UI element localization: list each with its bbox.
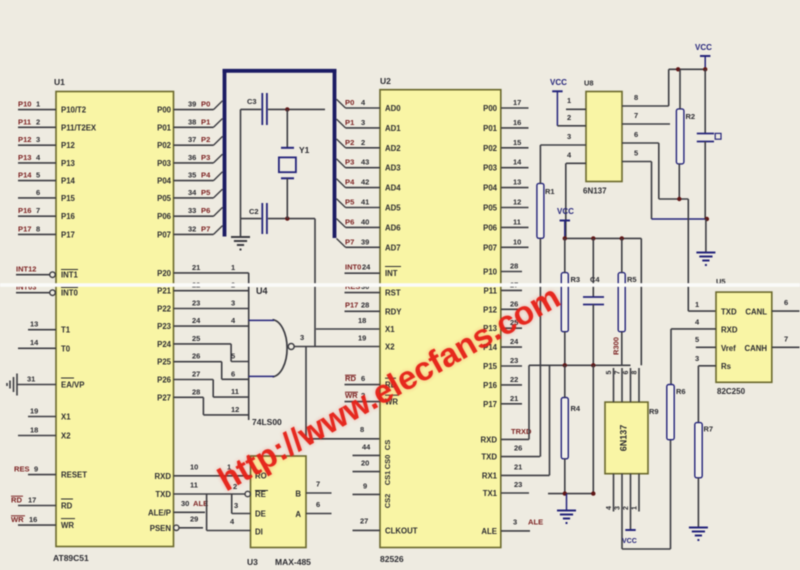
U2 RST pin wire net RES pin 30 — [345, 282, 381, 293]
svg-text:P06: P06 — [157, 212, 172, 221]
U1 T1 pin wire pin 13 — [28, 320, 56, 330]
svg-text:1: 1 — [231, 263, 235, 272]
wire: U3 A output pin 6 — [306, 500, 332, 513]
svg-text:2: 2 — [361, 138, 365, 147]
svg-text:10: 10 — [513, 237, 521, 246]
svg-text:WR: WR — [61, 521, 74, 530]
svg-text:Vref: Vref — [721, 344, 736, 353]
wire: U5 Rs to R7 pin 8 — [695, 354, 716, 423]
svg-text:6: 6 — [316, 500, 320, 509]
svg-text:26: 26 — [514, 444, 522, 453]
ground below rail (blue) — [557, 494, 576, 523]
svg-text:P15: P15 — [61, 194, 76, 203]
svg-text:P7: P7 — [201, 224, 210, 233]
svg-text:TXD: TXD — [481, 453, 497, 462]
svg-text:14: 14 — [513, 158, 522, 167]
bus: thick P0 bus — [223, 69, 337, 238]
svg-text:P12: P12 — [61, 141, 76, 150]
svg-text:7: 7 — [784, 335, 788, 344]
U2 TX1 pin wire pin 23 — [501, 480, 529, 493]
svg-text:13: 13 — [30, 320, 38, 329]
U1 X2 pin wire pin 18 — [18, 425, 56, 435]
svg-text:VCC: VCC — [695, 43, 712, 52]
U5 Vref stub pin 5 — [695, 335, 716, 347]
wire: node row down to ground rail — [592, 365, 594, 493]
IC U5 82C250 CAN transceiver — [716, 277, 772, 396]
svg-text:RESET: RESET — [61, 471, 87, 480]
U2 CS0 pin wire pin 44 — [353, 443, 381, 456]
svg-text:A: A — [295, 510, 301, 519]
svg-text:11: 11 — [190, 481, 198, 490]
svg-text:P00: P00 — [483, 104, 498, 113]
node: C1/Y1 junction — [285, 107, 289, 111]
wire: VCC rail down to opto2 pin8 — [640, 238, 642, 365]
U2 AD0-AD7 pin wires pins 4,3,2,43,42,41,40,39 nets P0-P7 with bus entries — [337, 98, 381, 247]
svg-text:28: 28 — [192, 387, 200, 396]
svg-text:8: 8 — [632, 370, 639, 374]
svg-text:P0: P0 — [345, 98, 354, 107]
svg-text:RE: RE — [255, 490, 266, 499]
svg-text:TXD: TXD — [721, 308, 737, 317]
U1 T0 pin wire pin 14 — [18, 338, 56, 348]
wire: U1 TXD to U3 RE pins 11,2 with bubble — [174, 481, 251, 497]
crystal Y1 — [279, 109, 310, 218]
svg-text:74LS00: 74LS00 — [252, 417, 282, 427]
U1 ALE/P stub pin 30 net ALE — [174, 499, 209, 512]
wire: U2 RX1 up to node row — [549, 365, 551, 475]
svg-text:28: 28 — [510, 262, 518, 271]
U2 RDY pin wire net P17 pin 28 — [345, 301, 381, 312]
svg-text:R4: R4 — [571, 404, 581, 413]
svg-text:AD4: AD4 — [385, 184, 401, 193]
svg-text:P1: P1 — [345, 118, 355, 127]
svg-text:29: 29 — [190, 515, 198, 524]
svg-text:P1: P1 — [201, 117, 211, 126]
svg-text:11: 11 — [513, 217, 521, 226]
wire: U4 output to U2 X2 — [294, 346, 380, 348]
svg-text:19: 19 — [30, 406, 38, 415]
svg-text:CS: CS — [383, 440, 392, 450]
IC U2 82526 CAN controller — [380, 76, 501, 564]
svg-text:P3: P3 — [201, 153, 210, 162]
svg-text:6N137: 6N137 — [583, 187, 607, 196]
svg-text:31: 31 — [27, 374, 35, 383]
svg-text:3: 3 — [36, 135, 40, 144]
svg-text:4: 4 — [606, 506, 613, 510]
IC U1 AT89C51 microcontroller — [53, 77, 174, 563]
svg-text:18: 18 — [358, 316, 366, 325]
svg-text:C3: C3 — [247, 97, 257, 106]
svg-text:P11: P11 — [18, 117, 32, 126]
svg-text:9: 9 — [363, 482, 367, 491]
svg-text:ALE/P: ALE/P — [148, 508, 171, 517]
U1 PSEN stub pin 29 with bubble — [174, 515, 203, 531]
svg-text:5: 5 — [606, 370, 613, 374]
svg-text:30: 30 — [181, 499, 189, 508]
svg-text:RES: RES — [14, 464, 30, 473]
svg-text:X1: X1 — [385, 325, 395, 334]
svg-text:25: 25 — [192, 334, 200, 343]
svg-text:P6: P6 — [345, 217, 354, 226]
IC U3 MAX-485 — [247, 456, 311, 567]
node: ground rail junctions — [563, 491, 596, 495]
svg-text:P07: P07 — [157, 230, 171, 239]
svg-text:38: 38 — [188, 117, 196, 126]
gate U4 74LS00 NAND — [252, 286, 304, 427]
svg-text:44: 44 — [362, 443, 371, 452]
svg-text:P6: P6 — [201, 206, 210, 215]
U8 pin 2 wire from VCC — [557, 113, 586, 126]
svg-text:AD6: AD6 — [385, 223, 401, 232]
node: C2/Y1 junction — [285, 216, 289, 220]
resistor R5 — [618, 238, 636, 365]
svg-text:CANH: CANH — [744, 344, 767, 353]
svg-text:R2: R2 — [686, 112, 696, 121]
svg-text:RST: RST — [385, 289, 401, 298]
svg-text:Rs: Rs — [721, 362, 732, 371]
svg-text:INT: INT — [385, 269, 398, 278]
white scan band — [0, 283, 800, 287]
watermark http://www.elecfans.com — [211, 278, 566, 498]
svg-text:AD5: AD5 — [385, 204, 401, 213]
wire: node row — [529, 364, 631, 366]
svg-text:32: 32 — [188, 224, 196, 233]
wire: VCC rail top right — [669, 68, 706, 70]
wire: U5 RXD to R6 pin 4 — [671, 318, 716, 385]
U2 CLKOUT pin wire pin 27 — [353, 517, 381, 531]
U8 pin 6 output wire — [622, 130, 688, 199]
svg-text:P01: P01 — [157, 123, 172, 132]
svg-text:X1: X1 — [61, 413, 71, 422]
node: rail junctions — [563, 236, 624, 240]
net label R300 (red, vertical) — [612, 337, 621, 355]
svg-text:P10: P10 — [18, 100, 32, 109]
U2 RXD pin wire net TRXD — [501, 427, 532, 439]
svg-text:T1: T1 — [61, 326, 71, 335]
svg-text:AD7: AD7 — [385, 243, 401, 252]
svg-text:P15: P15 — [483, 362, 498, 371]
U2 RX1 pin wire pin 21 — [501, 462, 550, 475]
svg-text:P23: P23 — [157, 322, 172, 331]
svg-text:RX1: RX1 — [482, 471, 498, 480]
svg-text:P26: P26 — [157, 376, 172, 385]
svg-text:P17: P17 — [483, 400, 497, 409]
svg-text:82526: 82526 — [380, 554, 404, 564]
svg-text:26: 26 — [192, 352, 200, 361]
U2 RD pin wire pin 6 net RD — [345, 374, 381, 385]
resistor R4 — [561, 365, 581, 493]
svg-text:13: 13 — [513, 178, 521, 187]
svg-text:P5: P5 — [345, 198, 355, 207]
wire: R1 bottom to U2 TXD — [539, 238, 541, 456]
svg-text:DI: DI — [255, 528, 263, 537]
svg-text:P4: P4 — [345, 178, 355, 187]
svg-text:CS0: CS0 — [383, 455, 392, 470]
U1 WR pin wire pin 16 — [11, 515, 56, 525]
svg-text:P07: P07 — [483, 243, 497, 252]
svg-text:22: 22 — [510, 375, 518, 384]
svg-text:DE: DE — [255, 510, 266, 519]
svg-text:37: 37 — [188, 135, 196, 144]
svg-text:P0: P0 — [201, 100, 210, 109]
svg-text:P2: P2 — [201, 135, 210, 144]
svg-text:P11: P11 — [484, 286, 498, 295]
svg-text:40: 40 — [361, 217, 369, 226]
ground below crystal caps — [231, 219, 250, 250]
svg-text:P13: P13 — [18, 153, 32, 162]
svg-text:23: 23 — [192, 299, 200, 308]
U1 P0 port pin wires pins 39-32, nets P0-P7, bus entries — [174, 100, 223, 235]
svg-text:P10/T2: P10/T2 — [61, 106, 87, 115]
svg-text:82C250: 82C250 — [717, 387, 746, 396]
svg-text:U2: U2 — [380, 76, 391, 86]
svg-text:RDY: RDY — [385, 307, 402, 316]
svg-text:33: 33 — [188, 206, 196, 215]
svg-text:R300: R300 — [612, 337, 621, 355]
svg-text:6: 6 — [784, 298, 788, 307]
svg-text:RXD: RXD — [481, 435, 498, 444]
wire: pin5 node to cap ground (blue) — [652, 218, 707, 220]
svg-text:20: 20 — [361, 459, 369, 468]
svg-text:R7: R7 — [704, 425, 714, 434]
capacitor C4 — [583, 238, 604, 365]
svg-text:R1: R1 — [545, 187, 555, 196]
svg-text:P05: P05 — [157, 194, 172, 203]
svg-text:INT1: INT1 — [61, 271, 79, 280]
svg-text:TXD: TXD — [155, 490, 171, 499]
svg-text:1: 1 — [36, 100, 40, 109]
svg-text:3: 3 — [567, 132, 571, 141]
svg-text:8: 8 — [36, 224, 40, 233]
U2 TXD pin wire pin 26 — [501, 444, 540, 457]
svg-text:X2: X2 — [385, 343, 395, 352]
wire: TXD branch down to U3 DI pin 4 — [207, 494, 251, 531]
wire: branch from X2 row down to U2 CS — [306, 347, 380, 439]
svg-text:VCC: VCC — [622, 538, 637, 545]
svg-text:1: 1 — [695, 300, 699, 309]
resistor R3 — [561, 238, 580, 365]
opto2 bottom pin stubs 4,3,2,1 — [606, 474, 639, 549]
svg-text:P20: P20 — [157, 269, 172, 278]
svg-text:21: 21 — [192, 263, 200, 272]
svg-text:TX1: TX1 — [483, 489, 498, 498]
svg-text:P11/T2EX: P11/T2EX — [61, 123, 97, 132]
svg-text:INT0: INT0 — [61, 289, 79, 298]
wire: U2 RXD up to node row — [528, 365, 530, 439]
U8 pin 8 wire up to VCC rail — [622, 69, 669, 106]
svg-text:39: 39 — [361, 237, 369, 246]
U5 TXD pin 1 label — [695, 300, 699, 309]
svg-text:P21: P21 — [157, 287, 172, 296]
wire: U2 X2 row label — [358, 334, 366, 343]
svg-text:3: 3 — [513, 518, 517, 527]
svg-text:5: 5 — [695, 335, 699, 344]
resistor R7 — [695, 423, 713, 478]
svg-text:6: 6 — [623, 370, 630, 374]
svg-text:5: 5 — [634, 149, 638, 158]
svg-text:R3: R3 — [571, 275, 581, 284]
svg-text:42: 42 — [361, 178, 369, 187]
svg-text:7: 7 — [36, 206, 40, 215]
svg-text:C2: C2 — [249, 207, 259, 216]
U2 P00-P07 pin wires pins 17-10 — [501, 98, 529, 247]
resistor R6 — [667, 385, 686, 440]
svg-text:P24: P24 — [157, 340, 172, 349]
svg-text:P16: P16 — [18, 206, 32, 215]
svg-text:7: 7 — [316, 480, 320, 489]
wire: cap left rail — [240, 109, 242, 218]
svg-text:3: 3 — [300, 333, 304, 342]
svg-text:2: 2 — [623, 506, 630, 510]
svg-text:34: 34 — [188, 188, 197, 197]
svg-text:14: 14 — [30, 338, 39, 347]
svg-text:P06: P06 — [483, 223, 498, 232]
U8 pin 5 ground wire — [622, 149, 652, 220]
svg-text:19: 19 — [358, 334, 366, 343]
power VCC mid rail — [557, 207, 574, 238]
svg-text:CLKOUT: CLKOUT — [385, 527, 418, 536]
svg-text:23: 23 — [510, 356, 518, 365]
U2 ALE pin wire pin 3 net ALE — [501, 518, 543, 531]
svg-text:PSEN: PSEN — [150, 524, 172, 533]
svg-text:R9: R9 — [649, 407, 659, 416]
svg-text:P17: P17 — [18, 224, 32, 233]
wire: U5 CANH output pin 7 — [772, 335, 800, 348]
wire: U4 input stubs (blue) — [249, 320, 274, 376]
svg-text:39: 39 — [188, 100, 196, 109]
U8 pin 3 wire to R1 — [540, 132, 586, 183]
node: cap/ground junction — [705, 217, 709, 221]
U1 RD pin wire pin 17 — [11, 495, 56, 505]
svg-text:3: 3 — [695, 354, 699, 363]
svg-text:P02: P02 — [483, 144, 498, 153]
svg-text:6N137: 6N137 — [619, 425, 629, 452]
svg-text:AD2: AD2 — [385, 144, 401, 153]
svg-text:P04: P04 — [483, 184, 498, 193]
U2 WR pin wire pin 2 net WR — [345, 391, 381, 402]
node: R2 bottom junction — [677, 197, 681, 201]
svg-text:U1: U1 — [54, 77, 65, 87]
svg-text:AD1: AD1 — [385, 124, 401, 133]
svg-text:10: 10 — [190, 463, 198, 472]
svg-text:P16: P16 — [61, 212, 76, 221]
svg-text:U4: U4 — [256, 286, 268, 296]
svg-text:EA/VP: EA/VP — [61, 381, 84, 390]
svg-text:15: 15 — [513, 138, 521, 147]
svg-text:36: 36 — [188, 153, 196, 162]
svg-text:P10: P10 — [483, 268, 498, 277]
svg-text:9: 9 — [34, 464, 38, 473]
power VCC top right — [695, 43, 712, 69]
IC U8 6N137 optocoupler — [583, 79, 622, 196]
svg-text:6: 6 — [634, 130, 638, 139]
svg-text:ALE: ALE — [481, 527, 497, 536]
U1 INT1 pin wire with bubble, net INT12 — [16, 265, 55, 278]
wire: 74LS00 input collector vertical — [248, 273, 250, 420]
wire: VCC rail mid — [565, 237, 642, 239]
ground below C5 — [696, 219, 715, 265]
IC 6N137 optocoupler 2 (rotated) — [605, 402, 659, 474]
svg-text:6: 6 — [36, 188, 40, 197]
svg-text:7: 7 — [634, 111, 638, 120]
svg-text:P03: P03 — [157, 159, 172, 168]
svg-text:RXD: RXD — [721, 326, 738, 335]
svg-text:28: 28 — [361, 301, 369, 310]
ground below R7 — [689, 478, 708, 540]
svg-text:P27: P27 — [157, 393, 171, 402]
U2 CS2 pin wire pin 9 — [353, 482, 381, 495]
svg-text:12: 12 — [513, 198, 521, 207]
svg-text:7: 7 — [615, 370, 622, 374]
svg-text:17: 17 — [513, 98, 521, 107]
svg-text:P04: P04 — [157, 177, 172, 186]
svg-text:21: 21 — [510, 394, 518, 403]
capacitor C2 — [241, 203, 316, 234]
svg-text:P13: P13 — [61, 159, 76, 168]
svg-text:6: 6 — [231, 369, 235, 378]
svg-text:CANL: CANL — [745, 308, 767, 317]
svg-text:C4: C4 — [590, 275, 600, 284]
svg-text:P22: P22 — [157, 305, 172, 314]
U2 INT pin wire pin 24 net INT0 — [345, 263, 381, 274]
svg-text:R6: R6 — [676, 387, 686, 396]
svg-text:16: 16 — [29, 515, 37, 524]
svg-text:P3: P3 — [345, 158, 354, 167]
svg-text:5: 5 — [36, 171, 40, 180]
svg-text:X2: X2 — [61, 432, 71, 441]
svg-text:VCC: VCC — [550, 78, 567, 87]
U2 CS1 pin wire pin 20 — [353, 459, 381, 472]
capacitor C1 — [241, 93, 326, 125]
P2 port pin wires pins 21-28 with staircase to 74LS00 inputs 1,2,3,4,5,6,11,12 — [174, 263, 249, 415]
U8 pin 7 stub — [622, 111, 670, 124]
svg-text:P2: P2 — [345, 138, 354, 147]
svg-text:35: 35 — [188, 171, 196, 180]
svg-text:5: 5 — [231, 352, 235, 361]
svg-text:VCC: VCC — [557, 207, 574, 216]
svg-text:RD: RD — [61, 502, 73, 511]
svg-text:Y1: Y1 — [299, 145, 310, 155]
svg-text:11: 11 — [231, 387, 239, 396]
svg-text:27: 27 — [192, 370, 200, 379]
svg-text:P00: P00 — [157, 106, 172, 115]
wire: RE to DE tie — [232, 494, 251, 514]
svg-text:27: 27 — [360, 517, 368, 526]
svg-text:8: 8 — [634, 93, 638, 102]
U2 P10-P17 pin wires pins 28-21 — [501, 262, 522, 404]
svg-text:P01: P01 — [483, 124, 498, 133]
svg-text:3: 3 — [231, 299, 235, 308]
U1 INT0 pin wire with bubble, net INT03 — [16, 283, 55, 296]
svg-text:AD3: AD3 — [385, 164, 401, 173]
svg-text:P5: P5 — [201, 188, 211, 197]
svg-text:ALE: ALE — [528, 518, 543, 527]
svg-text:P02: P02 — [157, 141, 172, 150]
svg-text:INT0: INT0 — [345, 263, 361, 272]
U1 X1 pin wire pin 19 — [28, 406, 56, 416]
svg-text:MAX-485: MAX-485 — [275, 557, 311, 567]
resistor R1 — [537, 183, 555, 238]
svg-text:CS2: CS2 — [383, 494, 392, 509]
wire: ground rail — [548, 493, 593, 495]
svg-text:8: 8 — [360, 425, 364, 434]
svg-text:CS1: CS1 — [383, 471, 392, 486]
U1 left pin wires P10-P17 with pin numbers — [18, 100, 56, 235]
svg-text:16: 16 — [513, 118, 521, 127]
wire: U5 CANL output pin 6 — [772, 298, 800, 311]
svg-text:3: 3 — [361, 118, 365, 127]
svg-text:1: 1 — [567, 96, 571, 105]
